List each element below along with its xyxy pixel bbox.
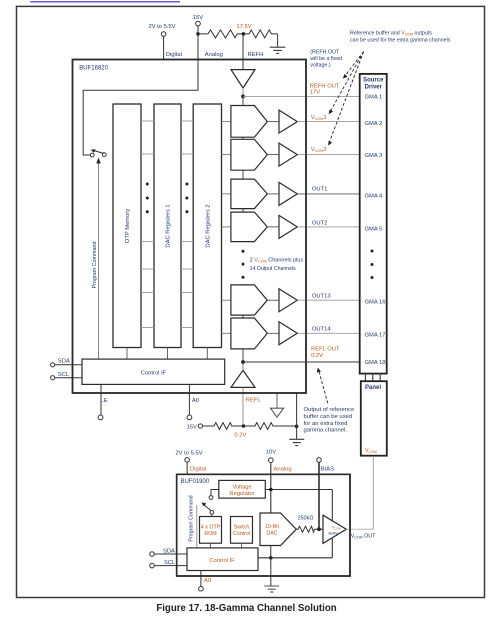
terminal SDA (lower) — [150, 549, 187, 557]
svg-text:REFL: REFL — [246, 398, 262, 404]
wire DAC reference chain (lower) — [242, 284, 244, 371]
op-amp REFL buffer (upward triangle) — [231, 362, 255, 387]
resistor R-top1 — [198, 30, 244, 38]
svg-text:BIAS: BIAS — [321, 467, 334, 473]
wire panel VCOM down to buffer output — [372, 456, 374, 529]
svg-text:15V: 15V — [187, 425, 197, 431]
wire to ground — [277, 34, 279, 47]
resistor R-top2 — [244, 30, 278, 38]
svg-text:14 Output Channels: 14 Output Channels — [250, 266, 297, 272]
IC BUF01900 outline — [177, 474, 350, 576]
note (REFH OUT will be a fixed voltage.) — [310, 50, 342, 69]
buffer amp OUT14 — [279, 322, 297, 345]
svg-text:Program Command: Program Command — [92, 241, 98, 288]
terminal SCL (upper) — [51, 372, 82, 380]
svg-text:GMA 5: GMA 5 — [365, 226, 383, 232]
svg-text:DAC Registers 1: DAC Registers 1 — [166, 204, 172, 247]
svg-text:Control IF: Control IF — [141, 371, 167, 377]
svg-text:0.2V: 0.2V — [311, 353, 323, 359]
svg-text:Buffer: Buffer — [329, 531, 340, 536]
node 0.2V junction — [234, 424, 246, 438]
svg-text:GMA 3: GMA 3 — [365, 153, 383, 159]
svg-text:4 x OTP: 4 x OTP — [201, 525, 221, 531]
note output of reference buffer — [304, 407, 355, 434]
register block DAC Registers 2 — [193, 104, 221, 348]
note reference buffer and VCOM outputs — [350, 31, 451, 44]
wire bottom rail — [258, 557, 332, 559]
ground (top REFH divider) — [270, 47, 286, 53]
svg-text:Output of reference: Output of reference — [304, 407, 355, 413]
svg-text:voltage.): voltage.) — [310, 63, 331, 69]
resistor R-bot1 — [203, 423, 244, 430]
dac channel OUT2 (pentagon D4) — [222, 212, 280, 242]
svg-text:SDA: SDA — [58, 358, 70, 364]
terminal A0 (lower) — [199, 571, 211, 592]
svg-text:OUT2: OUT2 — [312, 221, 327, 227]
node junction at ground leg — [295, 425, 299, 429]
svg-text:Analog: Analog — [205, 52, 223, 58]
wire REFH inside box to buffer — [242, 60, 244, 70]
node junction 15V rail — [196, 32, 200, 36]
bus stubs between register columns — [141, 121, 193, 328]
wire rail down to buffer top — [331, 490, 333, 521]
ground (bottom REFL divider) — [289, 439, 304, 445]
dac channel VCOM1 (pentagon D1) — [222, 106, 280, 138]
wire REFL OUT to GMA18 — [243, 361, 361, 363]
ellipsis dots between columns — [146, 183, 189, 214]
terminal 15V (analog supply) — [193, 15, 203, 26]
node REFH OUT junction — [241, 95, 245, 99]
wire digital jog inside box (redraw over box fill) — [83, 60, 198, 156]
svg-text:250kΩ: 250kΩ — [298, 516, 314, 522]
svg-text:BUF01900: BUF01900 — [181, 479, 210, 485]
svg-text:buffer can be used: buffer can be used — [304, 414, 353, 420]
ground (BUF01900) — [264, 586, 279, 592]
dashed arrow to REFL OUT — [317, 368, 328, 404]
wire switch to OTP ROM — [211, 515, 213, 517]
svg-text:15V: 15V — [193, 15, 203, 21]
node junction VR rail / analog — [269, 488, 273, 492]
svg-text:OUT13: OUT13 — [312, 294, 331, 300]
decorative top blue rule — [30, 1, 180, 3]
svg-text:GMA 18: GMA 18 — [365, 360, 386, 366]
wire OUT2 to GMA5 — [297, 226, 360, 228]
node 17.5V — [236, 24, 251, 36]
svg-text:Driver: Driver — [365, 85, 383, 91]
wire REFH OUT to GMA1 — [243, 95, 361, 97]
svg-text:Analog: Analog — [274, 467, 292, 473]
wire 15V to node — [197, 26, 199, 34]
dashed arrow to REFH OUT — [343, 52, 364, 79]
resistor R-bot2 — [244, 423, 297, 430]
stubs OTP/Switch to Control IF — [211, 543, 242, 548]
block Control IF (upper) — [82, 359, 225, 384]
wire DAC bottom to rail — [270, 546, 272, 558]
register block DAC Registers 1 — [154, 104, 181, 348]
resistor 250k — [297, 516, 323, 533]
svg-text:Voltage: Voltage — [232, 484, 251, 490]
terminal 2V to 5.5V (digital supply) — [148, 24, 175, 36]
IC BUF16820 outline — [73, 60, 307, 394]
svg-text:can be used for the extra gamm: can be used for the extra gamma channels — [350, 38, 451, 44]
op-amp REFH buffer (inverted triangle) — [231, 70, 255, 97]
IC Source Driver — [360, 74, 387, 374]
wire VCOM2 out to GMA3 — [297, 154, 360, 156]
wire VCOM1 out to GMA2 — [297, 121, 360, 123]
terminal A0 (upper) — [187, 384, 199, 419]
buffer amp OUT2 — [279, 215, 297, 238]
terminal 2V to 5.5V (lower digital) — [175, 451, 202, 463]
svg-text:DAC Registers 2: DAC Registers 2 — [205, 204, 211, 247]
dac channel OUT14 (pentagon D6) — [222, 318, 280, 349]
terminal SDA (upper) — [51, 358, 82, 367]
Panel block — [361, 381, 387, 456]
dashed arrow to VCOM1 — [329, 52, 364, 115]
terminal 10V (lower analog) — [266, 450, 276, 463]
svg-text:Regulator: Regulator — [229, 491, 254, 497]
note 2 VCOM channels plus 14 output channels — [250, 258, 304, 273]
block 4 x OTP ROM — [200, 517, 222, 544]
wire buffer bottom to bottom rail — [331, 538, 333, 558]
svg-text:0.2V: 0.2V — [234, 433, 246, 439]
wire box bottom to ground — [296, 393, 298, 439]
svg-text:GMA 2: GMA 2 — [365, 121, 383, 127]
ellipsis dots source driver — [371, 250, 374, 280]
block Voltage Regulator — [219, 480, 265, 498]
op-amp VCOM buffer — [323, 515, 346, 543]
node junction bottom rail / dac ground — [269, 556, 273, 560]
wire lower analog down to DAC — [270, 463, 272, 514]
wire OUT1 to GMA4 — [297, 193, 360, 195]
svg-text:Digital: Digital — [166, 52, 182, 58]
svg-text:Control IF: Control IF — [209, 558, 235, 564]
svg-text:A0: A0 — [204, 578, 211, 584]
svg-text:2V to 5.5V: 2V to 5.5V — [175, 451, 202, 457]
wire digital supply down-jog to switch — [163, 36, 165, 60]
wire program command line (lower) — [196, 505, 198, 548]
svg-text:REFL OUT: REFL OUT — [311, 346, 340, 352]
terminal BIAS — [317, 458, 334, 473]
buffer amp OUT1 — [279, 182, 297, 205]
svg-text:Figure 17. 18-Gamma Channel So: Figure 17. 18-Gamma Channel Solution — [156, 603, 336, 614]
dac channel OUT1 (pentagon D3) — [222, 179, 280, 209]
svg-text:gamma channel.: gamma channel. — [304, 428, 348, 434]
wire OUT13 to GMA16 — [297, 299, 360, 301]
dashed arrow to VCOM2 — [328, 52, 364, 146]
label REFL OUT 0.2V — [311, 346, 340, 359]
svg-text:Program Command: Program Command — [189, 495, 195, 541]
svg-text:OUT1: OUT1 — [312, 187, 327, 193]
analog ground stub with open triangle — [271, 393, 284, 417]
svg-text:Source: Source — [363, 78, 384, 84]
wire lower digital into box — [186, 462, 188, 474]
wire buffer output VCOM OUT — [346, 528, 373, 530]
svg-text:2 VCOM Channels plus: 2 VCOM Channels plus — [250, 258, 304, 264]
svg-text:Digital: Digital — [190, 467, 206, 473]
svg-text:GMA 4: GMA 4 — [365, 193, 383, 199]
wire analog supply into box — [197, 34, 199, 60]
terminal SCL (lower) — [150, 560, 187, 568]
label REFH OUT 17V — [310, 84, 340, 96]
buffer amp VCOM1 — [279, 110, 297, 133]
block Switch Control — [231, 517, 253, 544]
svg-text:Switch: Switch — [234, 525, 250, 531]
connector stubs source driver to panel — [365, 374, 380, 382]
svg-text:DAC: DAC — [266, 531, 277, 537]
switch S2 (program enable lower) — [202, 496, 214, 515]
ellipsis dots channel chain — [242, 250, 245, 279]
wire BIAS down to buffer input node — [318, 462, 320, 529]
buffer amp VCOM2 — [279, 143, 297, 166]
wire REFL input from external node — [242, 387, 244, 426]
svg-text:GMA 1: GMA 1 — [365, 94, 383, 100]
dac channel OUT13 (pentagon D5) — [222, 285, 280, 315]
svg-text:GMA 17: GMA 17 — [365, 333, 386, 339]
wire VR to switch elbow — [211, 490, 219, 496]
svg-text:Panel: Panel — [365, 385, 381, 391]
wire DAC to resistor — [296, 528, 297, 530]
IC BUF01900 outline border redraw — [177, 474, 350, 576]
wire rail to ground — [270, 558, 272, 586]
wire program command line with up arrow — [96, 158, 100, 360]
wire REFH into box — [242, 34, 244, 70]
svg-text:Reference buffer and VCOM outp: Reference buffer and VCOM outputs — [350, 31, 432, 37]
svg-text:OTP Memory: OTP Memory — [125, 209, 131, 243]
svg-text:10-Bit: 10-Bit — [265, 524, 279, 530]
svg-text:2V to 5.5V: 2V to 5.5V — [148, 24, 175, 30]
svg-text:will be a fixed: will be a fixed — [310, 56, 342, 62]
svg-text:for an extra fixed: for an extra fixed — [304, 421, 348, 427]
svg-text:17V: 17V — [310, 90, 320, 96]
wire OUT14 to GMA17 — [297, 332, 360, 334]
wire DAC reference chain (upper) — [242, 96, 244, 242]
svg-text:ROM: ROM — [204, 531, 216, 537]
register block OTP Memory — [113, 104, 141, 348]
buffer amp OUT13 — [279, 289, 297, 312]
svg-text:LE: LE — [101, 398, 108, 404]
svg-text:A0: A0 — [192, 398, 199, 404]
dac 10-Bit DAC (pentagon) — [260, 513, 296, 546]
stubs columns to Control IF — [127, 348, 207, 360]
svg-text:GMA 16: GMA 16 — [365, 300, 386, 306]
terminal 15V (bottom) — [187, 424, 203, 431]
wire VR output rail — [265, 489, 332, 491]
svg-text:BUF16820: BUF16820 — [79, 66, 108, 72]
switch S1 (program enable) — [90, 149, 106, 157]
svg-text:(REFH OUT: (REFH OUT — [310, 50, 340, 56]
svg-text:Control: Control — [233, 531, 250, 537]
svg-text:SCL: SCL — [58, 372, 70, 378]
svg-text:OUT14: OUT14 — [312, 327, 331, 333]
svg-text:REFH: REFH — [248, 52, 264, 58]
svg-text:SCL: SCL — [164, 560, 176, 566]
node junction BIAS / buffer input — [317, 527, 321, 531]
IC BUF16820 outline border redraw — [73, 60, 307, 394]
svg-text:10V: 10V — [266, 450, 276, 456]
svg-text:17.5V: 17.5V — [236, 24, 251, 30]
terminal LE — [98, 384, 108, 419]
dac channel VCOM2 (pentagon D2) — [222, 139, 280, 170]
block Control IF (lower) — [187, 548, 258, 571]
node REFL OUT junction — [241, 360, 245, 364]
svg-text:SDA: SDA — [163, 549, 175, 555]
